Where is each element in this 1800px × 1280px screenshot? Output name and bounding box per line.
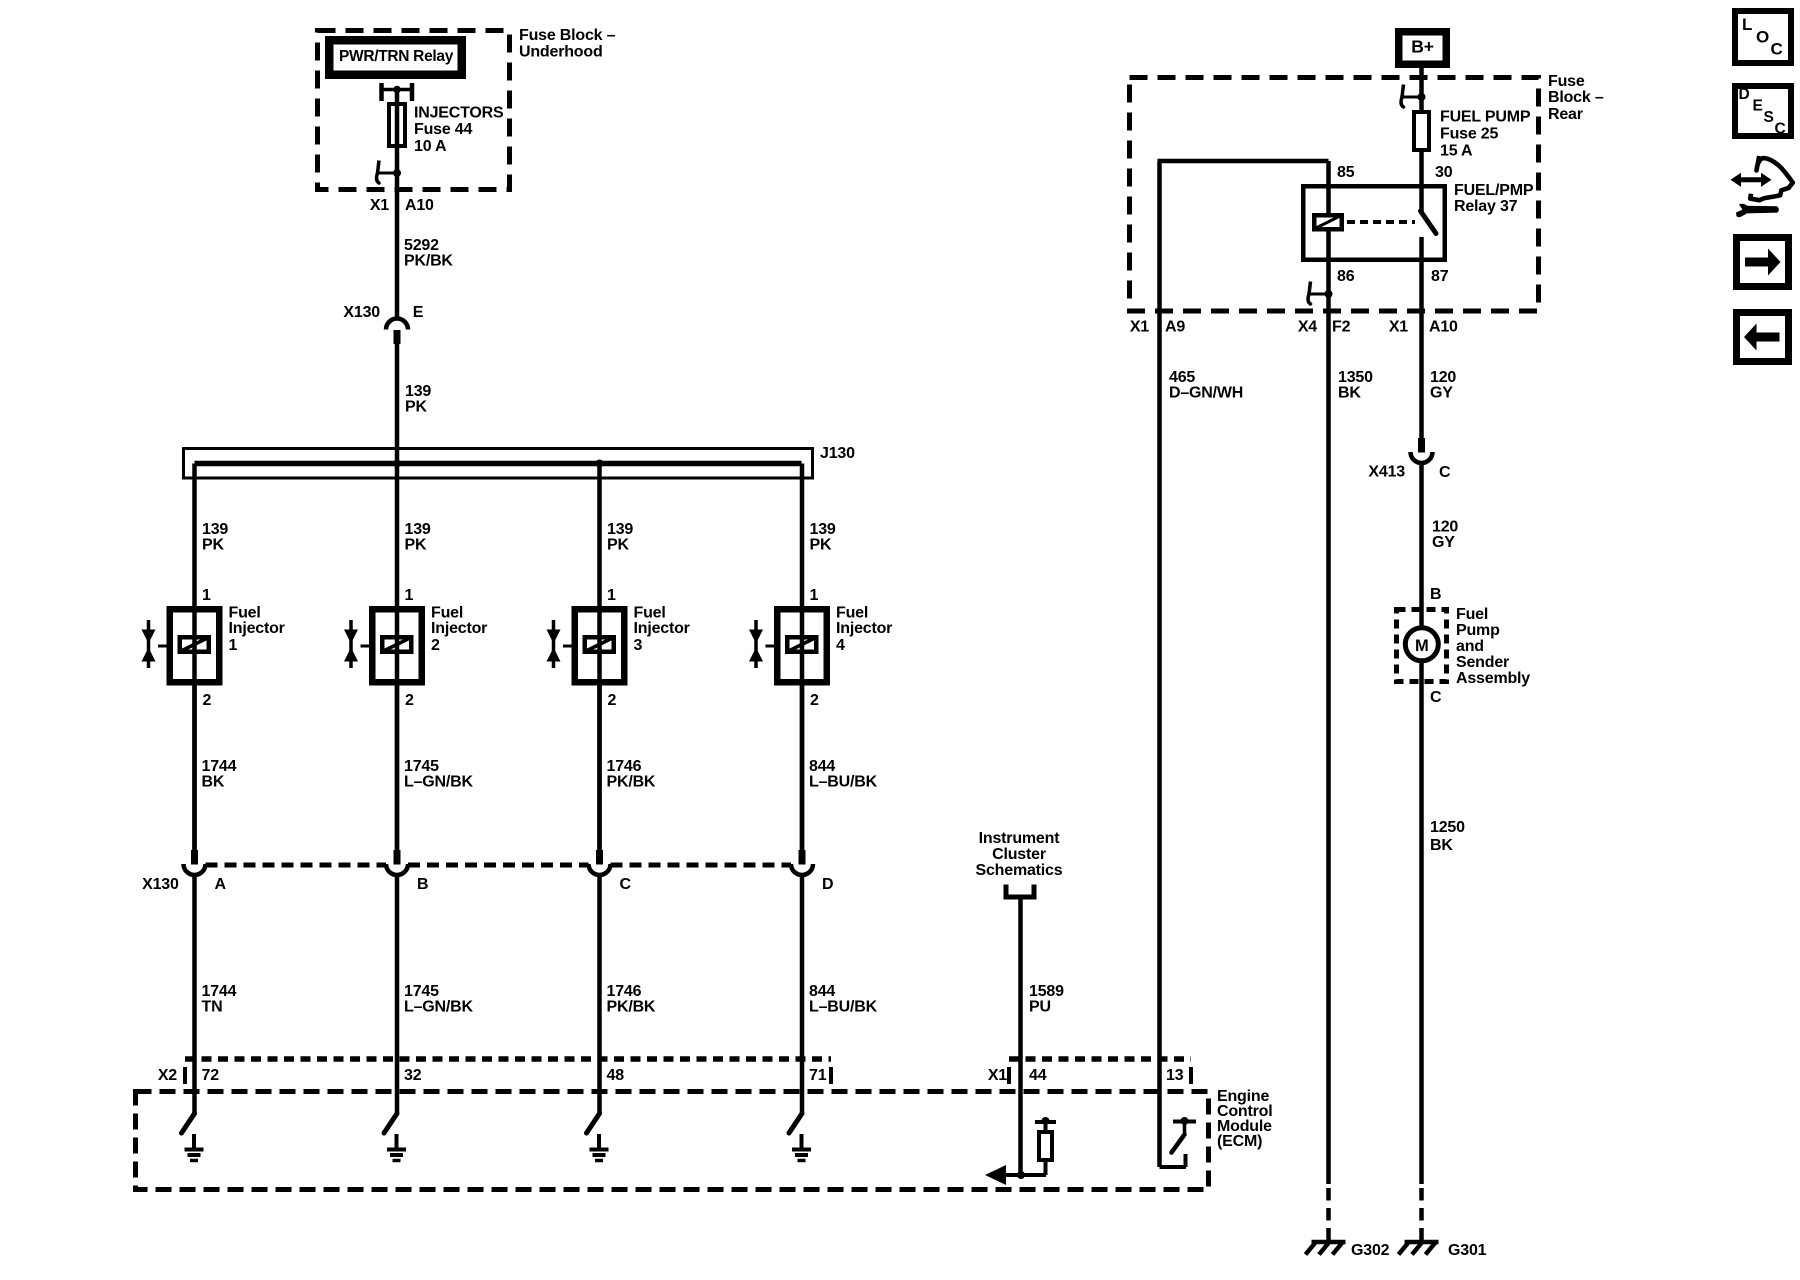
wire pin 44 to gauge driver — [1018, 1059, 1023, 1175]
resistor (ECM pull-up) — [1039, 1122, 1052, 1175]
relay coil — [1314, 215, 1342, 229]
label: 465 D-GN/WH — [1169, 369, 1243, 402]
wire ECM pin 72 to driver — [192, 1059, 197, 1114]
svg-text:139: 139 — [405, 521, 431, 538]
connector label X1 A10 (rear) — [1389, 319, 1458, 336]
fuel pump and sender assembly dashed box — [1397, 610, 1447, 682]
wire 844 L–BU/BK from injector 4 to X130 — [800, 686, 805, 851]
fuel injector 4 (coil + nozzle) — [749, 609, 827, 682]
svg-text:13: 13 — [1166, 1067, 1184, 1084]
connector X130 terminal B — [386, 850, 428, 893]
svg-text:L–BU/BK: L–BU/BK — [809, 774, 878, 791]
off-page connector bracket — [1004, 885, 1037, 898]
label: 1744 BK — [202, 758, 237, 791]
svg-text:Fuse: Fuse — [1548, 73, 1585, 90]
svg-text:FUEL PUMP: FUEL PUMP — [1440, 109, 1531, 126]
svg-text:PK: PK — [202, 537, 224, 554]
svg-text:72: 72 — [202, 1067, 220, 1084]
wire ECM pin 71 to driver — [800, 1059, 805, 1114]
svg-text:15 A: 15 A — [1440, 143, 1473, 160]
wire B+ into fuse block — [1419, 68, 1424, 112]
injector 2 driver switch — [384, 1114, 397, 1134]
wire 139 PK branch 3 from J130 to injector 3 — [597, 464, 602, 851]
svg-text:A10: A10 — [405, 197, 434, 214]
svg-text:M: M — [1415, 637, 1429, 655]
svg-text:3: 3 — [634, 637, 643, 654]
wire: relay pin 85 feed (horizontal link) — [1158, 159, 1329, 164]
label: Fuel Injector 2 — [431, 605, 487, 655]
svg-text:X413: X413 — [1368, 464, 1405, 481]
label: 1746 PK/BK — [607, 983, 656, 1016]
label: 139 PK branch 4 — [810, 521, 836, 554]
wire 844 L–BU/BK from X130 D to ECM — [800, 876, 805, 1060]
injector 4 driver switch — [789, 1114, 802, 1134]
fuse F44 (INJECTORS Fuse 44 10A) — [389, 104, 405, 146]
svg-text:139: 139 — [202, 521, 228, 538]
svg-text:X2: X2 — [158, 1067, 177, 1084]
svg-text:30: 30 — [1435, 164, 1453, 181]
svg-text:X4: X4 — [1298, 319, 1317, 336]
injector 1 driver switch — [182, 1114, 195, 1134]
wire 139 PK branch 2 from J130 to injector 2 — [395, 464, 400, 851]
icon: DESC button — [1735, 86, 1791, 138]
fuel injector 1 (coil + nozzle) — [142, 609, 220, 682]
svg-text:A10: A10 — [1429, 319, 1458, 336]
terminal clip at B+ feed — [1401, 85, 1425, 108]
connector X130 terminal C — [589, 850, 632, 893]
wire 139 PK branch 4 from J130 to injector 4 — [800, 464, 805, 851]
wire 1745 L–GN/BK from injector 2 to X130 — [395, 686, 400, 851]
svg-text:Instrument: Instrument — [979, 830, 1061, 847]
fuse block rear dashed box — [1130, 78, 1539, 312]
wire 1744 BK from injector 1 to X130 — [192, 686, 197, 851]
fuse block underhood dashed box — [318, 31, 510, 190]
svg-text:1589: 1589 — [1029, 983, 1064, 1000]
wire: relay to fuse 44 to X1 A10 — [395, 90, 400, 191]
svg-text:B: B — [417, 876, 428, 893]
connector label X4 F2 — [1298, 319, 1351, 336]
svg-text:85: 85 — [1337, 164, 1355, 181]
svg-text:1746: 1746 — [607, 983, 642, 1000]
label: Fuse Block - Rear — [1548, 73, 1604, 123]
label: 1746 PK/BK — [607, 758, 656, 791]
label: FUEL/PMP Relay 37 — [1454, 182, 1534, 215]
svg-text:844: 844 — [809, 758, 835, 775]
svg-text:A: A — [215, 876, 227, 893]
svg-text:GY: GY — [1432, 534, 1455, 551]
label: FUEL PUMP Fuse 25 15 A — [1440, 109, 1531, 160]
icon: back arrow button — [1737, 313, 1789, 362]
wire 1744 TN from X130 A to ECM — [192, 876, 197, 1060]
svg-text:1350: 1350 — [1338, 369, 1373, 386]
fuel pump relay driver switch (ECM) — [1160, 1117, 1197, 1167]
wire pin 13 to fuel pump relay driver — [1157, 1059, 1162, 1167]
off-page arrow (to instrument cluster) — [985, 1165, 1006, 1185]
wire 465 D-GN/WH — [1157, 161, 1162, 1059]
svg-text:X1: X1 — [370, 197, 389, 214]
svg-text:X130: X130 — [343, 304, 380, 321]
injector 3 driver switch — [587, 1114, 600, 1134]
label: Fuel Pump and Sender Assembly — [1456, 606, 1530, 687]
svg-text:1: 1 — [810, 587, 819, 604]
svg-text:Block –: Block – — [1548, 89, 1604, 106]
terminal clip at relay 86 — [1308, 282, 1332, 305]
svg-text:PK: PK — [607, 537, 629, 554]
ground G302 — [1306, 1242, 1346, 1255]
svg-text:10 A: 10 A — [414, 138, 447, 155]
svg-text:5292: 5292 — [404, 237, 439, 254]
wire 5292 PK/BK — [395, 190, 400, 318]
svg-text:Pump: Pump — [1456, 622, 1500, 639]
label: 139 PK branch 3 — [607, 521, 633, 554]
svg-text:C: C — [1439, 464, 1451, 481]
wire 1746 PK/BK from X130 C to ECM — [597, 876, 602, 1060]
svg-text:Cluster: Cluster — [992, 846, 1046, 863]
ground G301 — [1399, 1242, 1439, 1255]
ground (ECM internal, injector 4) — [792, 1134, 811, 1161]
svg-text:PK: PK — [405, 537, 427, 554]
wire 1746 PK/BK from injector 3 to X130 — [597, 686, 602, 851]
fuse F25 (FUEL PUMP Fuse 25 15A) — [1414, 112, 1429, 150]
svg-text:120: 120 — [1430, 369, 1456, 386]
icon: LOC button — [1735, 11, 1791, 63]
svg-text:1: 1 — [405, 587, 414, 604]
svg-text:PU: PU — [1029, 999, 1051, 1016]
icon: tools/location pictogram — [1731, 156, 1793, 217]
connector X2 dotted line (ECM) — [185, 1059, 831, 1084]
battery feed B+ terminal — [1399, 32, 1447, 65]
svg-text:120: 120 — [1432, 519, 1458, 536]
svg-text:G302: G302 — [1351, 1242, 1390, 1259]
label: 1745 L–GN/BK — [404, 983, 473, 1016]
relay PWR/TRN (bold label box) — [329, 40, 462, 75]
wire relay pin 87 down — [1419, 262, 1424, 318]
svg-text:S: S — [1764, 109, 1774, 126]
svg-text:C: C — [1775, 121, 1786, 138]
wire down to relay pin 85 — [1326, 161, 1331, 215]
svg-text:L: L — [1742, 15, 1752, 34]
svg-text:48: 48 — [607, 1067, 625, 1084]
connector X130 terminal A — [184, 850, 227, 893]
svg-text:139: 139 — [810, 521, 836, 538]
svg-text:1250: 1250 — [1430, 819, 1465, 836]
label: INJECTORS Fuse 44 10 A — [414, 105, 504, 156]
svg-text:BK: BK — [1338, 385, 1361, 402]
svg-text:2: 2 — [608, 692, 617, 709]
svg-text:1: 1 — [607, 587, 616, 604]
svg-text:1745: 1745 — [404, 983, 439, 1000]
label: Instrument Cluster Schematics — [976, 830, 1063, 879]
label: 844 L–BU/BK — [809, 983, 878, 1016]
connector X130 terminal D — [791, 850, 833, 893]
svg-text:1746: 1746 — [607, 758, 642, 775]
svg-text:Fuel: Fuel — [1456, 606, 1488, 623]
svg-text:PK/BK: PK/BK — [607, 774, 656, 791]
svg-text:X1: X1 — [1389, 319, 1408, 336]
label: 120 GY (upper) — [1430, 369, 1456, 402]
svg-text:TN: TN — [202, 999, 223, 1016]
label: 139 PK branch 1 — [202, 521, 228, 554]
junction dot on J130 bus (wire 3) — [596, 460, 604, 468]
svg-text:2: 2 — [810, 692, 819, 709]
svg-text:Fuse Block –: Fuse Block – — [519, 27, 616, 44]
svg-text:1: 1 — [202, 587, 211, 604]
relay pin 87 stub — [1419, 237, 1424, 262]
svg-text:PK: PK — [405, 399, 427, 416]
connector X1 dotted line (ECM) — [1009, 1059, 1191, 1084]
wire 120 GY (lower) — [1419, 463, 1424, 628]
label: 1745 L–GN/BK — [404, 758, 473, 791]
svg-text:C: C — [620, 876, 632, 893]
svg-text:G301: G301 — [1448, 1242, 1487, 1259]
relay switch blade (30 to 87) — [1421, 211, 1437, 234]
wire 120 GY (upper) — [1419, 318, 1424, 438]
svg-text:A9: A9 — [1165, 319, 1185, 336]
relay coil-contact dashed link — [1347, 220, 1415, 224]
svg-text:Assembly: Assembly — [1456, 670, 1530, 687]
svg-text:B: B — [1430, 586, 1441, 603]
label: 1250 BK — [1430, 819, 1465, 854]
svg-text:PK/BK: PK/BK — [607, 999, 656, 1016]
svg-text:Injector: Injector — [836, 620, 892, 637]
label: 1350 BK — [1338, 369, 1373, 402]
svg-text:F2: F2 — [1332, 319, 1351, 336]
svg-text:L–BU/BK: L–BU/BK — [809, 999, 878, 1016]
svg-text:and: and — [1456, 638, 1484, 655]
dashed wire tail to G302 — [1326, 1188, 1331, 1241]
svg-text:Sender: Sender — [1456, 654, 1509, 671]
svg-text:INJECTORS: INJECTORS — [414, 105, 504, 122]
connector X130 dotted gang line — [206, 863, 792, 868]
relay FUEL/PMP 37 box — [1303, 186, 1445, 260]
wire 1350 BK — [1326, 318, 1331, 1184]
svg-text:D: D — [822, 876, 833, 893]
svg-text:BK: BK — [202, 774, 225, 791]
svg-text:Schematics: Schematics — [976, 862, 1063, 879]
svg-text:Underhood: Underhood — [519, 44, 603, 61]
svg-text:X1: X1 — [988, 1067, 1007, 1084]
svg-text:X1: X1 — [1130, 319, 1149, 336]
svg-text:PK/BK: PK/BK — [404, 253, 453, 270]
terminal clip at fuse block exit — [377, 161, 401, 184]
label: 139 PK — [405, 383, 431, 416]
ECM dashed box — [136, 1092, 1209, 1190]
label: 120 GY (lower) — [1432, 519, 1458, 552]
label: Fuel Injector 4 — [836, 605, 892, 655]
svg-text:Fuse 25: Fuse 25 — [1440, 126, 1498, 143]
fuel injector 3 (coil + nozzle) — [547, 609, 625, 682]
label: Fuel Injector 3 — [634, 605, 690, 655]
svg-text:4: 4 — [836, 637, 845, 654]
label: Fuel Injector 1 — [229, 605, 285, 655]
svg-text:1: 1 — [229, 637, 238, 654]
svg-text:GY: GY — [1430, 385, 1453, 402]
svg-text:J130: J130 — [820, 445, 855, 462]
fuel pump motor M — [1405, 628, 1438, 661]
svg-text:B+: B+ — [1411, 37, 1433, 57]
wire 139 PK (main) — [395, 344, 400, 464]
ground (ECM internal, injector 2) — [387, 1134, 406, 1161]
svg-text:E: E — [1753, 98, 1763, 115]
wire 1745 L–GN/BK from X130 B to ECM — [395, 876, 400, 1060]
svg-text:32: 32 — [404, 1067, 422, 1084]
wire 139 PK branch 1 from J130 to injector 1 — [192, 464, 197, 851]
svg-text:1744: 1744 — [202, 983, 237, 1000]
label: Engine Control Module (ECM) — [1217, 1088, 1272, 1150]
label: Fuse Block - Underhood — [519, 27, 616, 61]
svg-text:E: E — [413, 304, 424, 321]
splice pack J130 — [184, 449, 813, 479]
internal voltage node bar + dot — [1035, 1117, 1056, 1125]
svg-text:Injector: Injector — [229, 620, 285, 637]
label: 1744 TN — [202, 983, 237, 1016]
svg-text:844: 844 — [809, 983, 835, 1000]
wire 1250 BK — [1419, 661, 1424, 1184]
svg-text:FUEL/PMP: FUEL/PMP — [1454, 182, 1534, 199]
junction dot on J130 bus (wire 2) — [393, 460, 401, 468]
wire relay pin 86 down — [1326, 232, 1331, 319]
connector X413 C — [1368, 438, 1451, 481]
svg-text:Injector: Injector — [431, 620, 487, 637]
svg-text:BK: BK — [1430, 837, 1453, 854]
node: pin44 junction dot — [1017, 1171, 1025, 1179]
label: 139 PK branch 2 — [405, 521, 431, 554]
relay output terminal bracket — [382, 83, 413, 101]
svg-text:87: 87 — [1431, 268, 1449, 285]
dashed wire tail to G301 — [1419, 1188, 1424, 1241]
svg-text:Injector: Injector — [634, 620, 690, 637]
wire ECM pin 48 to driver — [597, 1059, 602, 1114]
label: 5292 PK/BK — [404, 237, 453, 270]
wire ECM pin 32 to driver — [395, 1059, 400, 1114]
svg-text:O: O — [1756, 28, 1769, 47]
svg-text:D–GN/WH: D–GN/WH — [1169, 385, 1243, 402]
svg-text:86: 86 — [1337, 268, 1355, 285]
svg-text:PK: PK — [810, 537, 832, 554]
ground (ECM internal, injector 1) — [185, 1134, 204, 1161]
svg-text:L–GN/BK: L–GN/BK — [404, 774, 473, 791]
icon: next arrow button — [1737, 238, 1789, 287]
svg-text:Rear: Rear — [1548, 106, 1583, 123]
svg-text:71: 71 — [809, 1067, 827, 1084]
fuel injector 2 (coil + nozzle) — [344, 609, 422, 682]
svg-text:X130: X130 — [142, 876, 179, 893]
svg-text:2: 2 — [203, 692, 212, 709]
svg-text:L–GN/BK: L–GN/BK — [404, 999, 473, 1016]
connector X130 E — [343, 304, 423, 344]
svg-text:2: 2 — [405, 692, 414, 709]
svg-text:44: 44 — [1029, 1067, 1047, 1084]
svg-text:1744: 1744 — [202, 758, 237, 775]
connector label X1 A9 — [1130, 319, 1186, 336]
wire fuse 25 to relay pin 30 — [1419, 152, 1424, 213]
svg-text:Relay 37: Relay 37 — [1454, 198, 1518, 215]
svg-text:Fuse 44: Fuse 44 — [414, 121, 472, 138]
svg-text:(ECM): (ECM) — [1217, 1133, 1262, 1150]
svg-text:1745: 1745 — [404, 758, 439, 775]
svg-text:D: D — [1739, 86, 1750, 103]
svg-text:PWR/TRN Relay: PWR/TRN Relay — [339, 48, 454, 65]
label: 844 L–BU/BK — [809, 758, 878, 791]
wire 1589 PU — [1018, 897, 1023, 1059]
svg-text:2: 2 — [431, 637, 440, 654]
label: 1589 PU — [1029, 983, 1064, 1016]
svg-text:C: C — [1430, 689, 1442, 706]
connector label X1 A10 — [370, 197, 434, 214]
svg-text:C: C — [1771, 40, 1783, 59]
svg-text:139: 139 — [405, 383, 431, 400]
wire to off-page arrow — [992, 1173, 1046, 1177]
svg-text:139: 139 — [607, 521, 633, 538]
svg-text:465: 465 — [1169, 369, 1195, 386]
ground (ECM internal, injector 3) — [590, 1134, 609, 1161]
